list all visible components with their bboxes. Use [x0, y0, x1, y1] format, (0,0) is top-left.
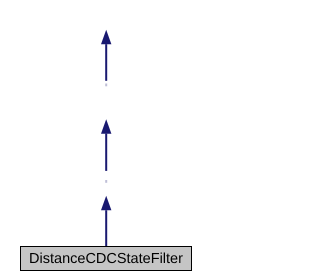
arrow 2 (middle inheritance arrow) [101, 119, 111, 171]
arrow 1 (top inheritance arrow) [101, 30, 111, 81]
faint edge tail mark above node 3 [105, 180, 107, 183]
arrow 3 (bottom inheritance arrow) [101, 196, 111, 246]
faint edge tail mark above node 2 [105, 84, 107, 87]
node box DistanceCDCStateFilter [21, 247, 192, 271]
inheritance diagram [0, 0, 213, 277]
svg-text:DistanceCDCStateFilter: DistanceCDCStateFilter [29, 251, 183, 267]
